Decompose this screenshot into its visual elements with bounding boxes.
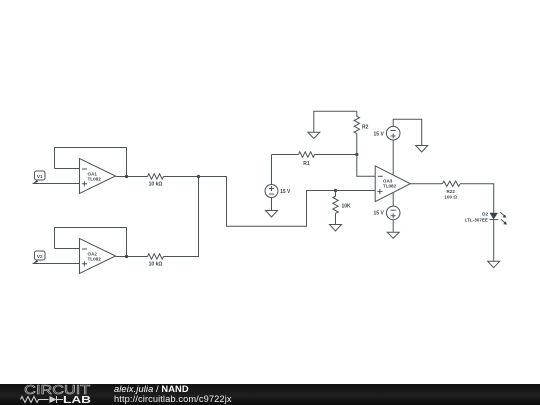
ground (below LED) bbox=[488, 261, 500, 267]
ground (right of top supply) bbox=[416, 146, 428, 153]
svg-text:10 kΩ: 10 kΩ bbox=[149, 262, 163, 268]
svg-text:R22: R22 bbox=[446, 189, 455, 194]
wire resistor to node bbox=[164, 176, 199, 178]
resistor 10K bbox=[333, 191, 351, 214]
wire R22 to LED bbox=[460, 184, 494, 213]
ground (below bottom supply) bbox=[387, 232, 399, 238]
svg-text:R2: R2 bbox=[362, 124, 369, 130]
op-amp OA2 bbox=[80, 239, 116, 274]
svg-text:TL082: TL082 bbox=[88, 257, 102, 262]
wire bottom supply to ground bbox=[392, 220, 394, 233]
voltage source 15 V (OA3 top supply) bbox=[374, 126, 400, 175]
ground (top, left of R2) bbox=[308, 132, 320, 138]
resistor 10 kOhm (OA2) bbox=[148, 254, 164, 268]
wire LED to ground bbox=[493, 220, 495, 262]
wire R2 top to ground bbox=[314, 111, 357, 132]
ground (below 10K) bbox=[330, 225, 342, 232]
wire OA2 feedback loop bbox=[55, 228, 127, 257]
node OA2 feedback junction bbox=[125, 255, 128, 258]
resistor R2 bbox=[354, 111, 369, 154]
wire OA3 output bbox=[410, 183, 442, 185]
svg-text:10 kΩ: 10 kΩ bbox=[149, 182, 163, 188]
svg-text:TL082: TL082 bbox=[383, 184, 397, 189]
footer bar bbox=[0, 384, 540, 405]
svg-text:R1: R1 bbox=[303, 161, 310, 167]
svg-text:V1: V1 bbox=[37, 174, 43, 179]
wire top supply to ground bbox=[393, 119, 422, 145]
svg-text:15 V: 15 V bbox=[280, 189, 291, 195]
resistor R22 100 Ohm bbox=[442, 181, 460, 199]
svg-text:10K: 10K bbox=[342, 204, 352, 210]
voltage source V3 15 V bbox=[265, 155, 291, 198]
op-amp OA1 bbox=[80, 159, 116, 194]
wire OA1 output bbox=[116, 176, 148, 178]
voltage source 15 V (OA3 bottom supply) bbox=[374, 193, 400, 220]
wire source to ground bbox=[271, 198, 273, 211]
svg-text:100 Ω: 100 Ω bbox=[444, 194, 457, 199]
wire node to OA3 + input bbox=[199, 177, 376, 227]
resistor 10 kOhm (OA1) bbox=[148, 174, 164, 188]
wire OA2 output bbox=[116, 256, 148, 258]
svg-text:LAB: LAB bbox=[63, 395, 91, 405]
LED D2 LTL-307EE bbox=[465, 212, 507, 225]
svg-text:D2: D2 bbox=[482, 212, 488, 217]
wire V1 to OA1 + input bbox=[33, 183, 80, 185]
flag V2 bbox=[33, 251, 46, 264]
resistor R1 bbox=[272, 152, 357, 167]
node summing junction bbox=[197, 175, 200, 178]
wire OA2 resistor to node bbox=[164, 177, 199, 257]
svg-text:V2: V2 bbox=[37, 254, 43, 259]
wire V2 to OA2 + input bbox=[33, 263, 80, 265]
ground (below 15 V source) bbox=[266, 211, 278, 218]
svg-text:LTL-307EE: LTL-307EE bbox=[465, 218, 488, 223]
CircuitLab logo bbox=[0, 383, 100, 405]
node R1 R2 junction bbox=[355, 153, 358, 156]
svg-text:15 V: 15 V bbox=[374, 211, 385, 217]
footer text line 2 bbox=[114, 394, 232, 404]
node OA1 feedback junction bbox=[125, 175, 128, 178]
wire junction to OA3 - input bbox=[357, 155, 375, 177]
op-amp OA3 bbox=[375, 166, 410, 202]
node 10K junction bbox=[334, 189, 337, 192]
wire OA1 feedback loop bbox=[55, 148, 127, 177]
svg-text:15 V: 15 V bbox=[374, 131, 385, 137]
svg-text:TL082: TL082 bbox=[88, 177, 102, 182]
footer text line 1 bbox=[114, 384, 189, 394]
flag V1 bbox=[33, 171, 46, 184]
wire 10K to ground bbox=[335, 213, 337, 224]
